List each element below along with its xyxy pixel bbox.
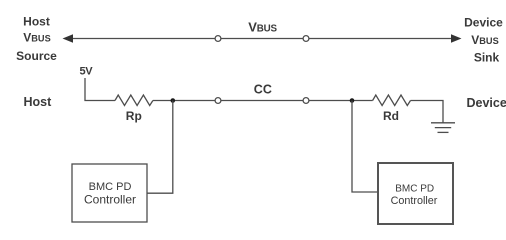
svg-text:VBUS: VBUS (471, 33, 498, 47)
net label VBUS (248, 20, 277, 35)
resistor Rd (373, 95, 411, 106)
junction host CC node (171, 98, 176, 103)
resistor Rp (115, 95, 153, 106)
label Device VBUS Sink (464, 16, 503, 65)
node CC connector contact left (215, 98, 221, 104)
wire host CC node to BMC PD controller (148, 101, 173, 194)
label Rd (383, 109, 399, 123)
svg-text:CC: CC (254, 82, 272, 96)
svg-text:Device: Device (467, 96, 506, 110)
node CC connector contact right (303, 98, 309, 104)
net label CC (254, 82, 272, 96)
wire CC between connector contacts (221, 100, 303, 102)
svg-text:Controller: Controller (84, 192, 136, 206)
wire CC Rp to connector (153, 100, 215, 102)
BMC PD controller U2 (device) (378, 163, 453, 224)
wire VBUS (70, 38, 455, 40)
wire CC connector to Rd (309, 100, 373, 102)
svg-text:VBUS: VBUS (248, 20, 277, 35)
node VBUS connector contact right (303, 36, 309, 42)
svg-text:5V: 5V (80, 65, 94, 77)
junction device CC node (350, 98, 355, 103)
svg-text:Sink: Sink (474, 51, 500, 65)
arrowhead left (to Host VBUS Source) (63, 34, 74, 43)
wire Rd to ground (411, 101, 444, 123)
svg-text:Rd: Rd (383, 109, 399, 123)
label Device (467, 96, 506, 110)
svg-text:Host: Host (24, 95, 53, 109)
power 5V (80, 65, 94, 77)
svg-text:Host: Host (23, 15, 50, 29)
BMC PD controller U1 (host) (72, 164, 147, 222)
svg-text:VBUS: VBUS (23, 31, 50, 45)
label Rp (126, 109, 142, 123)
svg-text:Rp: Rp (126, 109, 142, 123)
wire 5V supply to CC (85, 78, 115, 101)
label Host VBUS Source (16, 15, 57, 64)
label Host (24, 95, 53, 109)
node VBUS connector contact left (215, 36, 221, 42)
svg-text:Source: Source (16, 49, 57, 63)
svg-text:Controller: Controller (391, 195, 438, 207)
wire device CC node to BMC PD controller (352, 101, 378, 193)
svg-text:BMC PD: BMC PD (89, 181, 132, 193)
ground (431, 123, 455, 133)
svg-text:BMC PD: BMC PD (395, 183, 434, 194)
arrowhead right (to Device VBUS Sink) (451, 34, 462, 43)
svg-text:Device: Device (464, 16, 503, 30)
